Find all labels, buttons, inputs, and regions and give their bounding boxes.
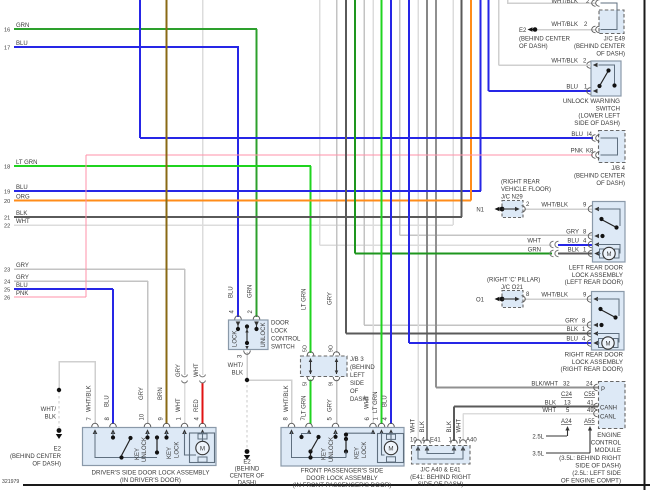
right rear pin 1 clip arrow [587,330,591,337]
svg-text:OF: OF [350,389,359,395]
svg-text:5I: 5I [303,382,309,386]
wire 24 GRY horizontal [14,280,148,282]
svg-text:SIDE OF DASH): SIDE OF DASH) [574,120,620,127]
wire 25 BLU vertical to driver pin 8 [112,289,114,424]
svg-text:17: 17 [4,46,10,52]
svg-text:24: 24 [586,382,593,388]
wire WHT vertical x319.5 from page top [319,0,321,245]
passenger pin 5 contact [335,432,337,435]
N29 right pin clip [522,206,526,213]
svg-text:OF DASH): OF DASH) [596,52,625,58]
svg-text:(RIGHT REAR: (RIGHT REAR [501,180,541,186]
svg-text:BLU: BLU [566,85,578,91]
wire BLK horizontal to right rear door pin 1 [346,333,592,335]
switch pin 3 arc [244,351,251,355]
svg-text:5O: 5O [303,345,309,352]
passenger motor stub from pin 4 [390,432,392,442]
passenger pin 8 arc and arrow [288,423,295,427]
svg-text:CANH: CANH [600,406,617,412]
passenger motor enclosure [378,434,404,463]
svg-text:KEY: KEY [167,447,173,459]
svg-text:BLU: BLU [105,395,111,407]
passenger key unlock arm [311,438,319,452]
svg-text:A55: A55 [584,419,595,425]
svg-text:GRY: GRY [16,275,29,281]
svg-text:M: M [606,342,611,348]
engine control module dashed box [599,382,626,429]
svg-text:(BEHIND CENTER: (BEHIND CENTER [574,174,626,180]
J/C E41 pin 4 arc arrow [424,440,431,444]
svg-text:(2.5L: LEFT SIDE: (2.5L: LEFT SIDE [572,470,621,477]
svg-text:(E41: BEHIND RIGHT: (E41: BEHIND RIGHT [410,474,471,481]
svg-text:CANL: CANL [600,415,617,421]
svg-text:P: P [601,387,605,393]
svg-text:SWITCH: SWITCH [271,345,295,351]
passenger pin 1 arc and arrow [378,423,385,427]
wire WHT/BLK from J/C O21 pin 8 to right rear pin 9 [524,298,592,300]
svg-text:CENTER OF: CENTER OF [230,474,265,480]
svg-text:GRN: GRN [248,285,254,298]
wire BLK vertical x346 from page top [345,0,347,334]
svg-text:BLU: BLU [383,395,389,407]
svg-text:WHT/: WHT/ [228,363,244,369]
svg-text:WHT/BLK: WHT/BLK [87,385,93,412]
wire 23 GRY vertical down to break [184,269,186,375]
driver pin 8 arc and arrow [110,423,117,427]
wire 19 BLU horizontal [14,190,481,192]
wire BLU vertical x409 from page top [408,0,410,343]
wire BLU horizontal to unlock warning switch pin 1 [489,90,592,92]
driver pin 9 arc and arrow [163,423,170,427]
svg-text:(LEFT REAR DOOR): (LEFT REAR DOOR) [565,279,623,286]
driver key unlock pivot dot [119,455,123,459]
wire BLU horizontal to J/B4 pin I4 [140,137,593,139]
svg-text:BLU: BLU [566,337,578,343]
wire BLK vertical x427 from page top to J/C E41 pin 4 [426,0,428,441]
svg-text:(IN DRIVER'S DOOR): (IN DRIVER'S DOOR) [120,477,181,484]
svg-text:BLK: BLK [568,248,579,254]
wire 20 ORG vertical up to page top [470,0,472,201]
J/C E49 pin clips top [592,0,596,6]
wire GRY vertical x336.5 from page top to J/B3 pin 9O [336,0,338,353]
wire WHT vertical from page top to break above driver pin 4 [202,0,204,375]
svg-text:OF DASH): OF DASH) [596,181,625,187]
front passenger side door lock assembly box [281,428,404,467]
svg-text:BLK: BLK [232,371,243,377]
svg-text:10: 10 [140,413,146,420]
break connector on WHT/RED wire [200,375,206,377]
right rear pin 4 clip arrow [587,340,591,347]
driver interior common bus from pin 7 [95,432,157,458]
wire 17 BLU horizontal [14,46,239,48]
svg-text:GRY: GRY [16,263,29,269]
page border bottom [23,484,650,486]
svg-text:SIDE: SIDE [350,381,364,387]
svg-text:J/C A40 & E41: J/C A40 & E41 [420,467,461,474]
svg-text:WHT/BLK: WHT/BLK [541,293,568,299]
svg-text:BLK: BLK [45,415,56,421]
left rear pin 8 contact dot [600,234,604,238]
svg-text:49: 49 [587,408,594,414]
ECM pin P clip [594,384,598,391]
wire 24 GRY vertical to driver pin 10 [147,281,149,424]
svg-text:WHT: WHT [176,398,182,412]
svg-text:WHT: WHT [194,363,200,377]
svg-text:BLU: BLU [567,239,579,245]
J/C bus bar outer 10 to 7 [418,446,463,459]
wire GRY horizontal to left rear door pin 8 [400,234,594,236]
svg-text:J/B 4: J/B 4 [611,166,625,172]
svg-text:32: 32 [563,382,570,388]
driver pin 7 arc and arrow [92,423,99,427]
svg-text:13: 13 [564,401,571,407]
driver motor loop from pin 1 [185,432,197,455]
wire 20 ORG horizontal [14,200,471,202]
wire GRY vertical x364 from page top [363,0,365,325]
page border right [644,0,646,490]
wire 16 GRN horizontal [14,28,257,30]
svg-text:WHT/: WHT/ [41,407,57,413]
svg-text:BLU: BLU [16,185,28,191]
wire WHT vertical x418 from page top to J/C E41 pin 10 [417,0,419,441]
wire GRN horizontal to left rear door pin 1 break [355,253,552,255]
wire BLK CANH horizontal to ECM [454,406,598,408]
svg-text:(BEHIND CENTER: (BEHIND CENTER [574,44,626,50]
unlock warning switch pin 2 [587,62,591,69]
svg-text:UNLOCK: UNLOCK [142,437,148,462]
wire 21 BLK vertical up to page top [461,0,463,217]
unlock warning switch contacts [597,84,601,88]
svg-text:CONTROL: CONTROL [591,440,622,447]
svg-text:SIDE OF DASH): SIDE OF DASH) [575,462,621,469]
svg-text:K8: K8 [586,149,594,155]
right rear pin 8 clip arrow [587,322,591,329]
svg-text:M: M [200,446,205,453]
svg-text:M: M [388,446,393,453]
J/C O21 dashed box [502,291,523,308]
svg-text:(BEHIND CENTER: (BEHIND CENTER [10,454,62,460]
svg-text:E2: E2 [519,28,527,34]
J/B4 pin K8 clips [592,152,596,159]
svg-text:RIGHT REAR DOOR: RIGHT REAR DOOR [565,352,624,359]
svg-text:DRIVER'S SIDE DOOR LOCK ASSEMB: DRIVER'S SIDE DOOR LOCK ASSEMBLY [92,470,210,477]
svg-text:LT GRN: LT GRN [16,160,37,166]
wire WHT CANL horizontal to ECM [463,413,598,415]
wire WHT/BLK dashed to E2 center ground [246,380,248,449]
svg-text:J/C E49: J/C E49 [604,37,626,43]
wire 18 LT GRN vertical to J/B3 pin 5O [310,166,312,353]
svg-text:I4: I4 [587,132,593,138]
svg-text:GRY: GRY [566,230,579,236]
passenger pin 6 contact jog [346,432,373,433]
svg-text:BLU: BLU [16,283,28,289]
wire PNK horizontal to J/B4 pin K8 [86,154,593,156]
wire WHT vertical x373 from page top to passenger pin 6 [372,0,374,424]
svg-text:WHT: WHT [365,395,371,409]
svg-text:DOOR: DOOR [271,321,290,327]
svg-text:DASH): DASH) [238,481,257,487]
svg-text:(3.5L: BEHIND RIGHT: (3.5L: BEHIND RIGHT [559,455,621,462]
svg-text:CONTROL: CONTROL [271,337,301,343]
svg-text:20: 20 [4,199,10,205]
svg-text:J/C N29: J/C N29 [501,195,523,201]
svg-text:BLK: BLK [16,211,27,217]
driver key unlock arm [122,439,131,456]
passenger key unlock pivot dot [308,455,312,459]
svg-text:GRN: GRN [16,23,29,29]
wire BLU horizontal to right rear door pin 4 [409,342,592,344]
wire WHT/BLK switch pin 3 down to junction [246,352,248,380]
J/C A40 and E41 dashed box [412,446,471,465]
J/C N29 dashed box [502,201,523,218]
wire 25 BLU horizontal [14,288,113,290]
passenger motor loop from pin 1 [382,432,385,455]
svg-text:BLU: BLU [571,132,583,138]
left rear pin 4 clip arrow [588,241,592,248]
driver motor enclosure [190,433,215,463]
wire WHT horizontal to left rear door pin 4 break [320,244,553,246]
wire 23 GRY horizontal [14,268,185,270]
switch pin 2 arc arrow dot [253,316,260,320]
svg-text:BLK: BLK [545,401,556,407]
J/B4 pin I4 clips [592,135,596,142]
ground E2 center symbol [245,449,250,454]
svg-text:26: 26 [4,296,10,302]
passenger key lock arm [344,437,348,441]
svg-text:WHT: WHT [527,239,541,245]
svg-text:WHT/BLK: WHT/BLK [284,385,290,412]
svg-text:(BEHIND: (BEHIND [235,467,260,473]
svg-text:RED: RED [194,399,200,412]
svg-text:3.5L: 3.5L [532,452,544,458]
passenger interior bus from pin 8 [292,432,347,458]
break connector on WHT/BLU wire [550,241,554,247]
svg-text:LT GRN: LT GRN [302,289,308,310]
wire BLU vertical x488.5 from page top [488,0,490,91]
svg-text:19: 19 [4,190,10,196]
svg-text:(LOWER LEFT: (LOWER LEFT [578,113,620,120]
driver motor M [196,441,209,454]
switch pin 4 arc arrow dot [235,316,242,320]
svg-text:GRY: GRY [565,319,578,325]
wire WHT/BLK from J/C N29 pin 2 to left rear pin 9 [524,208,593,210]
wire LT GRN vertical x382 from page top to passenger pin 1 [381,0,383,424]
wire WHT/BLK into unlock warning switch [499,64,592,66]
J/C E49 pin clips bottom [592,26,596,33]
O21 right pin clip [522,296,526,303]
wire 18 LT GRN horizontal [14,165,311,167]
wire 21 BLK horizontal [14,216,462,218]
svg-text:PNK: PNK [16,291,28,297]
svg-text:(RIGHT 'C' PILLAR): (RIGHT 'C' PILLAR) [487,278,540,284]
wire 17 BLU vertical to door lock control switch pin 4 [237,47,239,317]
wire RED below break to driver pin 4 [202,383,204,424]
driver side door lock assembly box [83,428,217,466]
wire WHT/BLK from E2 ground to J/C E49 pin 2 [536,29,596,31]
svg-text:WHT: WHT [16,219,30,225]
svg-text:BLK: BLK [420,421,426,432]
svg-text:KEY: KEY [135,448,141,460]
wire 19 BLU vertical up to page top [480,0,482,191]
svg-text:SIDE OF DASH): SIDE OF DASH) [418,481,464,488]
wire BLK from J/C A40 pin 1 up [453,407,455,442]
wire BRN vertical from page top to driver pin 9 [166,0,168,424]
right rear door lock assembly box [592,292,625,351]
svg-text:23: 23 [4,268,10,274]
right rear motor M [602,337,614,349]
wire GRY vertical x399.5 from page top [399,0,401,235]
svg-text:LOCK ASSEMBLY: LOCK ASSEMBLY [572,359,623,366]
wire WHT/BLK dashed to E2 left ground [58,391,60,428]
J/B 4 dashed box [599,131,626,163]
svg-text:WHT: WHT [542,408,556,414]
svg-text:E2: E2 [243,460,251,466]
driver pin 10 arc and arrow [144,423,151,427]
wire WHT/BLK driver pin 7 loop [59,362,95,425]
J/C bus bar inner 4 to 1 [427,446,454,454]
break connector on GRN/BLK wire [550,250,554,256]
svg-text:BLK/WHT: BLK/WHT [531,382,558,388]
unlock warning switch box [591,61,621,96]
wire BLK/WHT horizontal to ECM pin P [436,387,598,389]
svg-text:DOOR LOCK ASSEMBLY: DOOR LOCK ASSEMBLY [306,475,377,482]
svg-text:(BEHIND CENTER: (BEHIND CENTER [519,37,571,43]
svg-text:KEY: KEY [322,448,328,460]
wire WHT/BLK E49 top stub [508,0,597,3]
wire LT GRN from J/B3 to passenger pin 7 [310,380,312,425]
driver pin 8 contact [112,432,114,436]
svg-text:LT GRN: LT GRN [302,396,308,417]
wire BLU vertical from page top at x140 [139,0,141,138]
svg-text:2.5L: 2.5L [532,435,544,441]
svg-text:M: M [607,252,612,258]
wire BLU from break to left rear door pin 4 [558,244,593,246]
svg-text:LOCK ASSEMBLY: LOCK ASSEMBLY [572,272,623,279]
svg-text:OF DASH): OF DASH) [32,462,61,468]
svg-text:OF DASH): OF DASH) [519,44,548,50]
svg-text:ENGINE: ENGINE [597,432,621,439]
wire 26 PNK vertical up [85,155,87,297]
right rear pin 8 contact dot [599,323,603,327]
svg-text:PNK: PNK [571,149,583,155]
J/B 3 dashed box [301,356,348,377]
driver pin 4 arc and arrow [199,423,206,427]
svg-text:E41: E41 [430,438,441,444]
svg-text:ORG: ORG [16,195,30,201]
wire BLU vertical x391 from page top to passenger pin 4 [390,0,392,424]
driver motor stub from pin 4 [202,432,204,442]
junction dot driver E2 branch [57,388,61,392]
svg-text:A24: A24 [561,419,572,425]
passenger pin 4 arc and arrow [388,423,395,427]
svg-text:LEFT REAR DOOR: LEFT REAR DOOR [569,265,624,272]
driver pin 10 contact [147,432,149,436]
svg-text:16: 16 [4,28,10,34]
driver pin 9 contact [166,432,168,436]
svg-text:GRN: GRN [528,248,541,254]
svg-text:9O: 9O [329,345,335,352]
J/C A40 pin 1 arc arrow [451,440,458,444]
right rear motor assembly [597,334,619,343]
junction dot below door lock control switch [245,378,249,382]
driver key lock arm [155,435,159,439]
svg-text:(BEHIND: (BEHIND [350,365,375,371]
svg-text:WHT/BLK: WHT/BLK [551,0,578,5]
right rear pin 9 clip arrow [587,296,591,303]
wire GRY from J/B3 to passenger pin 5 [336,380,338,425]
svg-text:22: 22 [4,224,10,230]
svg-text:LOCK: LOCK [271,329,287,335]
svg-text:A40: A40 [466,438,477,444]
left rear pin 9 clip arrow [588,206,592,213]
wire WHT/BLK junction to passenger pin 8 [247,380,292,424]
passenger pin 7 arc and arrow [306,423,313,427]
wire 22 WHT vertical up to page top [452,0,454,225]
J/B3 right pin arcs [333,352,340,356]
svg-text:WHT: WHT [411,419,417,433]
svg-text:WHT: WHT [457,419,463,433]
svg-text:GRY: GRY [176,364,182,377]
svg-text:18: 18 [4,165,10,171]
wire 26 PNK horizontal [14,296,86,298]
svg-text:(IN FRONT PASSENGER'S DOOR): (IN FRONT PASSENGER'S DOOR) [293,482,392,489]
J/B3 left pin arcs [307,352,314,356]
driver pin 1 arc and arrow [181,423,188,427]
svg-text:LEFT: LEFT [350,373,365,379]
svg-text:LOCK: LOCK [233,331,239,347]
passenger motor M [384,441,397,454]
svg-text:GRY: GRY [328,399,334,412]
J/C E49 bus bar [601,3,618,30]
svg-text:LOCK: LOCK [362,442,368,458]
J/B3 right internal arrow [336,359,338,375]
driver key unlock arm tip dot [128,436,132,440]
ECM CANH clip [594,403,598,410]
svg-text:WHT/BLK: WHT/BLK [551,22,578,28]
left rear motor M [603,247,615,259]
svg-text:UNLOCK: UNLOCK [261,322,267,347]
wire GRN vertical x355 from page top [354,0,356,254]
svg-text:BLU: BLU [16,41,28,47]
wire WHT below break to driver pin 1 [184,383,186,424]
left rear switch internal [598,209,620,226]
N29 internal wire with arrow [502,208,518,210]
svg-text:BLK: BLK [567,327,578,333]
switch rocker element [245,324,249,328]
svg-text:J/B 3: J/B 3 [350,357,364,363]
svg-text:321979: 321979 [2,479,19,485]
wire BLK from break to left rear door pin 1 [558,253,593,255]
wire WHT from J/C A40 pin 7 up [462,414,464,442]
O21 internal wire with arrow [502,298,518,300]
wire 22 WHT horizontal [14,224,453,226]
door lock control switch box [229,320,269,350]
svg-text:BLK: BLK [447,421,453,432]
svg-text:O1: O1 [476,298,485,304]
svg-text:UNLOCK: UNLOCK [329,437,335,462]
svg-text:LOCK: LOCK [175,442,181,458]
J/C A40 pin 7 arc arrow [460,440,467,444]
svg-text:UNLOCK WARNING: UNLOCK WARNING [563,98,620,105]
svg-text:BRN: BRN [158,387,164,400]
svg-text:WHT/BLK: WHT/BLK [551,59,578,65]
svg-text:41: 41 [587,401,594,407]
left rear door lock assembly box [593,202,626,263]
J/C E41 pin 10 arc arrow [415,440,422,444]
J/C E49 dashed box [599,10,624,34]
svg-text:(RIGHT REAR DOOR): (RIGHT REAR DOOR) [561,366,623,373]
wire 16 GRN vertical to door lock control switch pin 2 [256,29,258,317]
